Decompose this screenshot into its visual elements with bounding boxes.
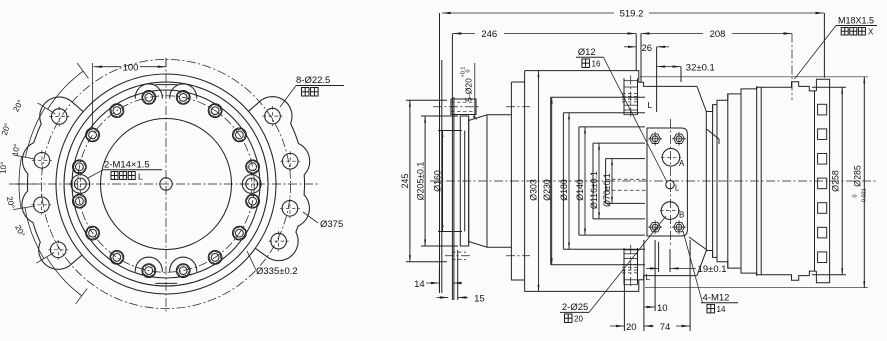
- M18 axis: [791, 34, 793, 101]
- rear cap slots: [818, 104, 827, 115]
- dim 246: [453, 33, 475, 35]
- flange ring inner circle: [72, 90, 260, 278]
- leader 2-M14: [88, 170, 103, 178]
- port B: [661, 202, 679, 220]
- svg-text:Ø375: Ø375: [320, 219, 343, 230]
- hole bolt circle o335 (dash-dot): [41, 59, 290, 308]
- ext line left b: [441, 60, 443, 293]
- port plate axis: [670, 119, 672, 247]
- svg-text:246: 246: [481, 29, 497, 40]
- svg-text:519.2: 519.2: [620, 9, 644, 20]
- svg-text:-0.021: -0.021: [862, 188, 868, 204]
- svg-text:10: 10: [657, 303, 668, 314]
- hidden L drilling: [606, 178, 647, 180]
- svg-text:Ø70±0.1: Ø70±0.1: [602, 173, 612, 207]
- dim 10: [644, 306, 655, 308]
- 8 x o22.5 holes: [51, 109, 67, 125]
- body step rings: [550, 97, 552, 264]
- ring joints: [705, 112, 707, 251]
- taper and ring stack bottom: [697, 251, 757, 276]
- disc step line: [464, 131, 466, 232]
- svg-text:20: 20: [626, 322, 637, 333]
- dim 20-74: [610, 325, 624, 327]
- leader 8-o22.5: [280, 86, 296, 108]
- 5-o20 axis: [433, 106, 481, 108]
- svg-text:208: 208: [710, 29, 726, 40]
- svg-text:Ø116±0.1: Ø116±0.1: [589, 171, 599, 209]
- housing bolt tabs left: [22, 97, 83, 269]
- dim 14: [426, 282, 439, 284]
- label tongkong: [302, 88, 310, 97]
- dim o285: [863, 77, 865, 288]
- bottom lug: [135, 257, 162, 272]
- bolt circle (dash-dot): [78, 96, 255, 273]
- right view centerline: [430, 180, 876, 182]
- rear housing joint line: [760, 87, 762, 275]
- svg-text:Ø230: Ø230: [542, 179, 552, 201]
- svg-text:20: 20: [574, 315, 583, 324]
- center hole: [160, 178, 172, 190]
- svg-text:Ø140: Ø140: [575, 179, 585, 201]
- left view vertical centerline: [165, 58, 167, 312]
- lower L port hatch: [623, 248, 625, 285]
- dim 519.2: [442, 12, 614, 14]
- dim o160: [442, 131, 444, 232]
- M14 plug left: [71, 175, 90, 194]
- output disc: [460, 116, 468, 246]
- svg-text:Ø285: Ø285: [853, 165, 863, 187]
- dim 32: [657, 66, 681, 68]
- svg-text:14: 14: [414, 279, 425, 290]
- svg-text:10°: 10°: [0, 162, 8, 175]
- svg-text:16: 16: [592, 60, 601, 69]
- rear housing outline: [757, 82, 817, 280]
- svg-text:L: L: [138, 172, 143, 182]
- svg-text:A: A: [679, 159, 685, 168]
- boss shoulder top: [707, 129, 720, 139]
- svg-text:15: 15: [474, 293, 485, 304]
- rear cap: [816, 79, 829, 282]
- svg-text:8-Ø22.5: 8-Ø22.5: [296, 75, 330, 86]
- svg-text:L: L: [646, 272, 651, 282]
- svg-text:4-M12: 4-M12: [703, 293, 730, 304]
- ext line left d: [453, 97, 455, 300]
- port A: [662, 149, 680, 167]
- wheel flange plate: [511, 82, 524, 280]
- bore circle: [101, 119, 232, 250]
- flange ring outer circle: [64, 82, 268, 286]
- svg-text:0: 0: [466, 69, 472, 72]
- port L small: [666, 181, 674, 189]
- boss shoulder bottom: [689, 237, 706, 250]
- svg-text:B: B: [679, 211, 684, 220]
- dim 100 ext line: [91, 63, 93, 128]
- svg-text:32±0.1: 32±0.1: [686, 62, 715, 73]
- port plate: [647, 128, 687, 236]
- 5-o20 box: [451, 99, 476, 115]
- angle dim lines: [38, 103, 56, 114]
- svg-text:M18X1.5: M18X1.5: [838, 16, 874, 26]
- 16 hex bolts: [246, 160, 260, 174]
- svg-text:X: X: [868, 28, 874, 37]
- M14 plug right: [242, 175, 261, 194]
- svg-text:100: 100: [123, 62, 139, 73]
- svg-text:2-M14×1.5: 2-M14×1.5: [104, 160, 150, 171]
- svg-text:14: 14: [717, 305, 726, 314]
- svg-text:19±0.1: 19±0.1: [698, 264, 727, 275]
- svg-text:Ø12: Ø12: [578, 47, 596, 58]
- svg-text:26: 26: [642, 43, 653, 54]
- housing outline circle: [56, 74, 276, 294]
- taper and ring stack top: [697, 86, 757, 111]
- o-series dim lines: [538, 71, 540, 292]
- 5-o20 bottom hidden: [452, 251, 466, 253]
- ext line o285 top long: [640, 76, 868, 78]
- hub with chamfer: [469, 115, 512, 247]
- svg-text:245: 245: [400, 174, 410, 189]
- svg-text:Ø160: Ø160: [433, 170, 443, 192]
- svg-text:Ø335±0.2: Ø335±0.2: [256, 266, 298, 277]
- ext line left a: [439, 13, 441, 293]
- flange bolt circle marks: [506, 106, 530, 108]
- label xieyoukongL: [111, 172, 118, 180]
- ext line o285 bottom long: [645, 287, 868, 289]
- port plate bolts 4-M12: [650, 134, 661, 143]
- svg-text:Ø258: Ø258: [831, 170, 841, 192]
- left view horizontal centerline: [16, 183, 318, 185]
- ext line left c: [451, 34, 453, 301]
- svg-text:5-Ø20: 5-Ø20: [464, 78, 474, 102]
- dim 26: [624, 46, 637, 48]
- svg-text:Ø205±0.1: Ø205±0.1: [415, 162, 425, 201]
- dim 19: [646, 267, 659, 269]
- dim 15: [436, 297, 448, 299]
- dim o205: [424, 116, 426, 246]
- upper L port hatch: [623, 78, 625, 114]
- main body: [525, 71, 697, 292]
- svg-text:74: 74: [660, 322, 671, 333]
- housing bolt tabs right: [249, 97, 310, 261]
- dim o258: [812, 86, 846, 88]
- dim 100 line: [94, 66, 121, 68]
- svg-text:Ø180: Ø180: [559, 179, 569, 201]
- svg-text:0: 0: [852, 194, 858, 197]
- svg-text:L: L: [648, 100, 653, 110]
- svg-text:2-Ø25: 2-Ø25: [562, 302, 588, 313]
- dim 208: [641, 33, 703, 35]
- svg-text:L: L: [675, 184, 680, 193]
- svg-text:Ø303: Ø303: [529, 179, 539, 201]
- top lug: [135, 84, 162, 99]
- dim 245: [409, 100, 411, 262]
